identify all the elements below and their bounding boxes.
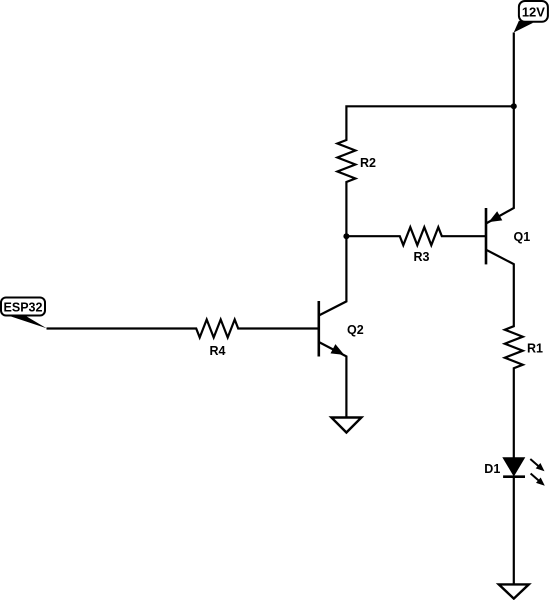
svg-text:D1: D1 — [484, 462, 500, 476]
svg-text:R4: R4 — [210, 344, 226, 358]
svg-text:ESP32: ESP32 — [4, 301, 43, 315]
svg-text:Q1: Q1 — [514, 230, 531, 244]
svg-text:Q2: Q2 — [347, 323, 364, 337]
svg-text:12V: 12V — [522, 5, 545, 20]
svg-text:R1: R1 — [527, 342, 543, 356]
svg-text:R3: R3 — [414, 250, 430, 264]
svg-text:R2: R2 — [360, 156, 376, 170]
